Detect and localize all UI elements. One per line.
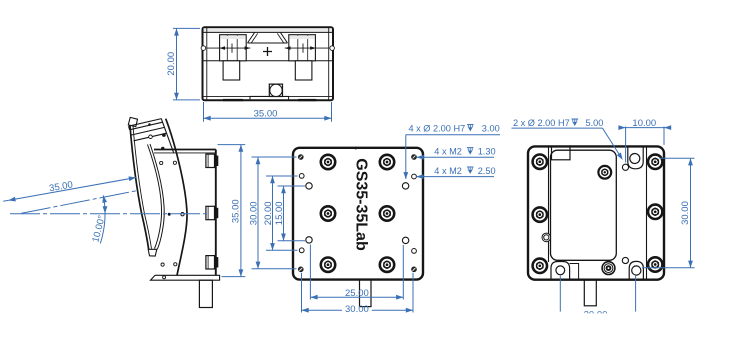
svg-text:GS35-35Lab: GS35-35Lab <box>352 158 369 251</box>
svg-text:15.00: 15.00 <box>274 201 285 225</box>
svg-text:1.30: 1.30 <box>478 147 496 157</box>
svg-text:3.00: 3.00 <box>482 123 500 133</box>
svg-text:10.00: 10.00 <box>632 118 656 129</box>
svg-text:2.50: 2.50 <box>478 166 496 176</box>
svg-text:5.00: 5.00 <box>586 118 604 128</box>
svg-text:30.00: 30.00 <box>249 201 260 225</box>
svg-text:20.00: 20.00 <box>166 52 177 76</box>
svg-text:25.00: 25.00 <box>345 288 369 299</box>
svg-text:20.00: 20.00 <box>263 201 274 225</box>
svg-text:4 x M2: 4 x M2 <box>434 147 462 157</box>
svg-text:30.00: 30.00 <box>680 201 691 225</box>
svg-text:2 x Ø 2.00 H7: 2 x Ø 2.00 H7 <box>513 118 570 128</box>
svg-text:4 x M2: 4 x M2 <box>434 166 462 176</box>
svg-text:35.00: 35.00 <box>254 108 278 119</box>
svg-text:4 x Ø 2.00 H7: 4 x Ø 2.00 H7 <box>409 123 466 133</box>
svg-text:35.00: 35.00 <box>230 199 241 223</box>
